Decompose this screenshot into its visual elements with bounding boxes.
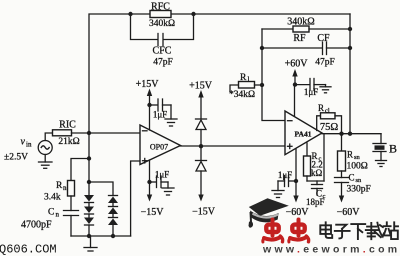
- svg-text:330pF: 330pF: [347, 185, 371, 195]
- svg-text:75Ω: 75Ω: [320, 122, 339, 133]
- capacitor Cc 18pF: [306, 134, 326, 207]
- svg-text:RIC: RIC: [59, 120, 76, 131]
- svg-text:n: n: [63, 184, 67, 192]
- svg-text:R: R: [56, 181, 63, 191]
- svg-text:−60V: −60V: [286, 207, 310, 218]
- node top-rail right junction: [191, 12, 195, 16]
- wire feedback vertical right: [349, 14, 351, 134]
- resistor Rsn 100: [338, 134, 368, 178]
- ground +60V cap: [320, 87, 331, 93]
- svg-text:−15V: −15V: [141, 207, 165, 218]
- node clamp top junction: [87, 180, 91, 184]
- svg-text:R: R: [240, 73, 247, 83]
- svg-text:CF: CF: [317, 33, 330, 44]
- wire output to B: [380, 134, 382, 144]
- node top-rail left junction: [128, 12, 132, 16]
- node V- junction: [294, 179, 298, 183]
- svg-text:±2.5V: ±2.5V: [4, 153, 28, 163]
- wire ground rail: [71, 235, 131, 237]
- svg-text:RFC: RFC: [151, 2, 170, 13]
- power +60V PA41: [285, 59, 309, 85]
- resistor Rn 3.4k: [44, 181, 75, 203]
- wire OP07 V- pin: [149, 160, 151, 182]
- svg-text:−15V: −15V: [192, 207, 216, 218]
- wire PA41 V+ pin: [294, 85, 296, 117]
- capacitor Csn 330pF: [335, 173, 371, 200]
- wire OP07 output to PA41: [181, 145, 286, 147]
- char zi: [335, 225, 350, 239]
- svg-text:R: R: [318, 103, 324, 113]
- node V+ junction: [147, 103, 151, 107]
- svg-text:OP07: OP07: [150, 143, 168, 152]
- node RF right junction: [348, 27, 352, 31]
- node V- junction: [147, 180, 151, 184]
- transducer B: [373, 142, 397, 156]
- resistor Rl 34k: [229, 73, 262, 100]
- wire node down to Rn jog: [88, 133, 90, 182]
- char zhan: [383, 222, 398, 239]
- node output junction feedback: [348, 132, 352, 136]
- diode D5 up: [108, 203, 118, 214]
- power +15V OP07: [136, 79, 160, 105]
- logo chongchong char2: [289, 220, 309, 242]
- svg-text:+15V: +15V: [189, 81, 213, 92]
- ground PA41 cap: [272, 191, 284, 198]
- svg-text:l: l: [248, 75, 250, 84]
- wire PA41 output: [322, 133, 381, 135]
- capacitor 1uF OP07 bottom: [150, 170, 170, 189]
- capacitor 1uF PA41 top: [295, 79, 326, 98]
- resistor Rc 2.2k: [304, 143, 323, 181]
- wire top feedback rail OP07: [89, 14, 350, 133]
- svg-text:4700pF: 4700pF: [21, 220, 52, 231]
- op-amp U1 OP07: [140, 125, 181, 165]
- ground main: [84, 236, 97, 251]
- node jog junction: [87, 156, 91, 160]
- power -60V snubber: [337, 196, 361, 219]
- diode D4 up: [108, 196, 118, 204]
- power -60V PA41: [286, 181, 310, 218]
- svg-text:CFC: CFC: [153, 46, 172, 57]
- diode D6 up: [108, 214, 118, 236]
- resistor RFC 340k: [149, 2, 175, 30]
- diode D8 clamp lower: [196, 146, 207, 171]
- node rail junction left: [87, 234, 91, 238]
- svg-text:3.4k: 3.4k: [44, 193, 61, 203]
- svg-text:1μF: 1μF: [153, 110, 167, 120]
- svg-text:+60V: +60V: [285, 59, 309, 70]
- capacitor CF 47pF: [262, 33, 350, 68]
- capacitor CFC 47pF: [131, 14, 194, 68]
- diode D7 clamp upper: [196, 119, 207, 146]
- svg-text:sn: sn: [354, 154, 361, 161]
- svg-text:in: in: [26, 141, 32, 149]
- node CF junction left: [260, 46, 264, 50]
- svg-text:PA41: PA41: [295, 130, 312, 139]
- op-amp U2 PA41: [285, 111, 322, 155]
- node CF right junction: [348, 46, 352, 50]
- svg-text:1μF: 1μF: [278, 170, 292, 180]
- diode D3 down: [84, 214, 94, 236]
- logo graduation cap: [249, 198, 289, 227]
- svg-text:340kΩ: 340kΩ: [287, 17, 314, 28]
- ground OP07 top cap: [165, 119, 177, 126]
- resistor RIC 21k: [45, 120, 89, 147]
- svg-text:47pF: 47pF: [153, 58, 173, 68]
- logo text dianzi xiazaizhan: [320, 222, 398, 239]
- ground OP07 bottom cap: [162, 188, 174, 195]
- svg-text:+15V: +15V: [136, 79, 160, 90]
- wire clamp top: [89, 182, 113, 196]
- svg-text:18pF: 18pF: [306, 197, 325, 207]
- node clamp junction: [199, 144, 203, 148]
- power +15V clamp: [189, 81, 213, 120]
- wire PA41 inverting input vertical: [262, 29, 285, 121]
- svg-text:21kΩ: 21kΩ: [58, 137, 79, 147]
- char xia: [351, 224, 365, 239]
- svg-text:1μF: 1μF: [155, 170, 169, 180]
- svg-text:cl: cl: [325, 108, 330, 115]
- svg-text:www.eeworm.com: www.eeworm.com: [262, 244, 400, 256]
- node +60V junction: [293, 82, 297, 86]
- wire OP07 V+ pin: [149, 105, 151, 130]
- svg-text:47pF: 47pF: [315, 58, 335, 68]
- diode D2 down: [84, 203, 94, 215]
- svg-text:1μF: 1μF: [304, 87, 318, 97]
- svg-text:340kΩ: 340kΩ: [149, 19, 175, 29]
- ground below Vin: [39, 155, 53, 169]
- svg-text:C: C: [349, 173, 355, 183]
- node Rl junction: [260, 83, 264, 87]
- wire input node to OP07 inverting input: [89, 132, 140, 134]
- char dian: [320, 222, 332, 238]
- capacitor 1uF OP07 top: [150, 99, 172, 120]
- resistor Rcl 75: [317, 103, 342, 134]
- svg-text:RF: RF: [293, 33, 306, 44]
- capacitor Cn 4700pF: [21, 196, 79, 236]
- wire PA41 V- pin: [295, 149, 297, 181]
- capacitor 1uF PA41 bottom: [278, 170, 296, 191]
- node input junction: [87, 131, 91, 135]
- node rail junction right: [111, 234, 115, 238]
- diode D1 down: [84, 182, 94, 203]
- power -15V OP07: [141, 182, 165, 218]
- svg-text:−60V: −60V: [337, 207, 361, 218]
- svg-text:v: v: [21, 137, 26, 148]
- wire jog to Rn: [71, 159, 89, 181]
- svg-text:n: n: [56, 211, 60, 219]
- resistor RF 340k: [262, 17, 350, 45]
- svg-text:B: B: [389, 142, 397, 156]
- svg-text:100Ω: 100Ω: [347, 162, 368, 172]
- power -15V clamp: [192, 171, 216, 218]
- svg-text:kΩ: kΩ: [311, 168, 323, 178]
- svg-text:Q606.COM: Q606.COM: [0, 243, 57, 256]
- svg-text:*34kΩ: *34kΩ: [229, 90, 255, 100]
- char zai: [366, 223, 384, 240]
- svg-text:sn: sn: [356, 177, 363, 184]
- svg-text:C: C: [48, 208, 54, 218]
- node output junction Rcl/Rsn: [339, 132, 343, 136]
- wire OP07 noninverting input: [131, 161, 140, 236]
- source Vin ±2.5V: [4, 137, 52, 163]
- ground B: [376, 152, 387, 167]
- svg-text:R: R: [347, 150, 353, 160]
- logo chongchong char1: [263, 220, 283, 242]
